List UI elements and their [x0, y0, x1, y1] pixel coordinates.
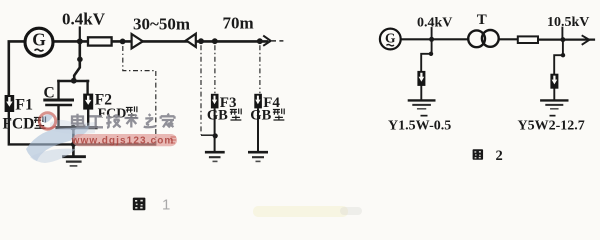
svg-text:1: 1 — [162, 197, 170, 214]
svg-text:0.4kV: 0.4kV — [417, 15, 452, 30]
svg-text:F1: F1 — [15, 97, 33, 114]
svg-text:G: G — [385, 30, 396, 45]
svg-text:T: T — [477, 12, 487, 28]
svg-text:www.dgjs123.com: www.dgjs123.com — [71, 135, 175, 146]
svg-text:Y1.5W-0.5: Y1.5W-0.5 — [388, 118, 451, 133]
svg-text:30~50m: 30~50m — [133, 15, 190, 34]
svg-text:GB: GB — [207, 107, 228, 123]
svg-text:0.4kV: 0.4kV — [62, 10, 106, 29]
svg-text:Y5W2-12.7: Y5W2-12.7 — [518, 118, 585, 133]
svg-text:FCD: FCD — [98, 107, 127, 122]
svg-text:70m: 70m — [223, 14, 254, 33]
svg-text:GB: GB — [250, 107, 271, 123]
svg-text:FCD: FCD — [3, 116, 35, 133]
svg-text:2: 2 — [496, 148, 503, 164]
svg-text:G: G — [32, 29, 46, 49]
svg-text:C: C — [44, 85, 55, 102]
svg-text:10.5kV: 10.5kV — [547, 15, 589, 30]
